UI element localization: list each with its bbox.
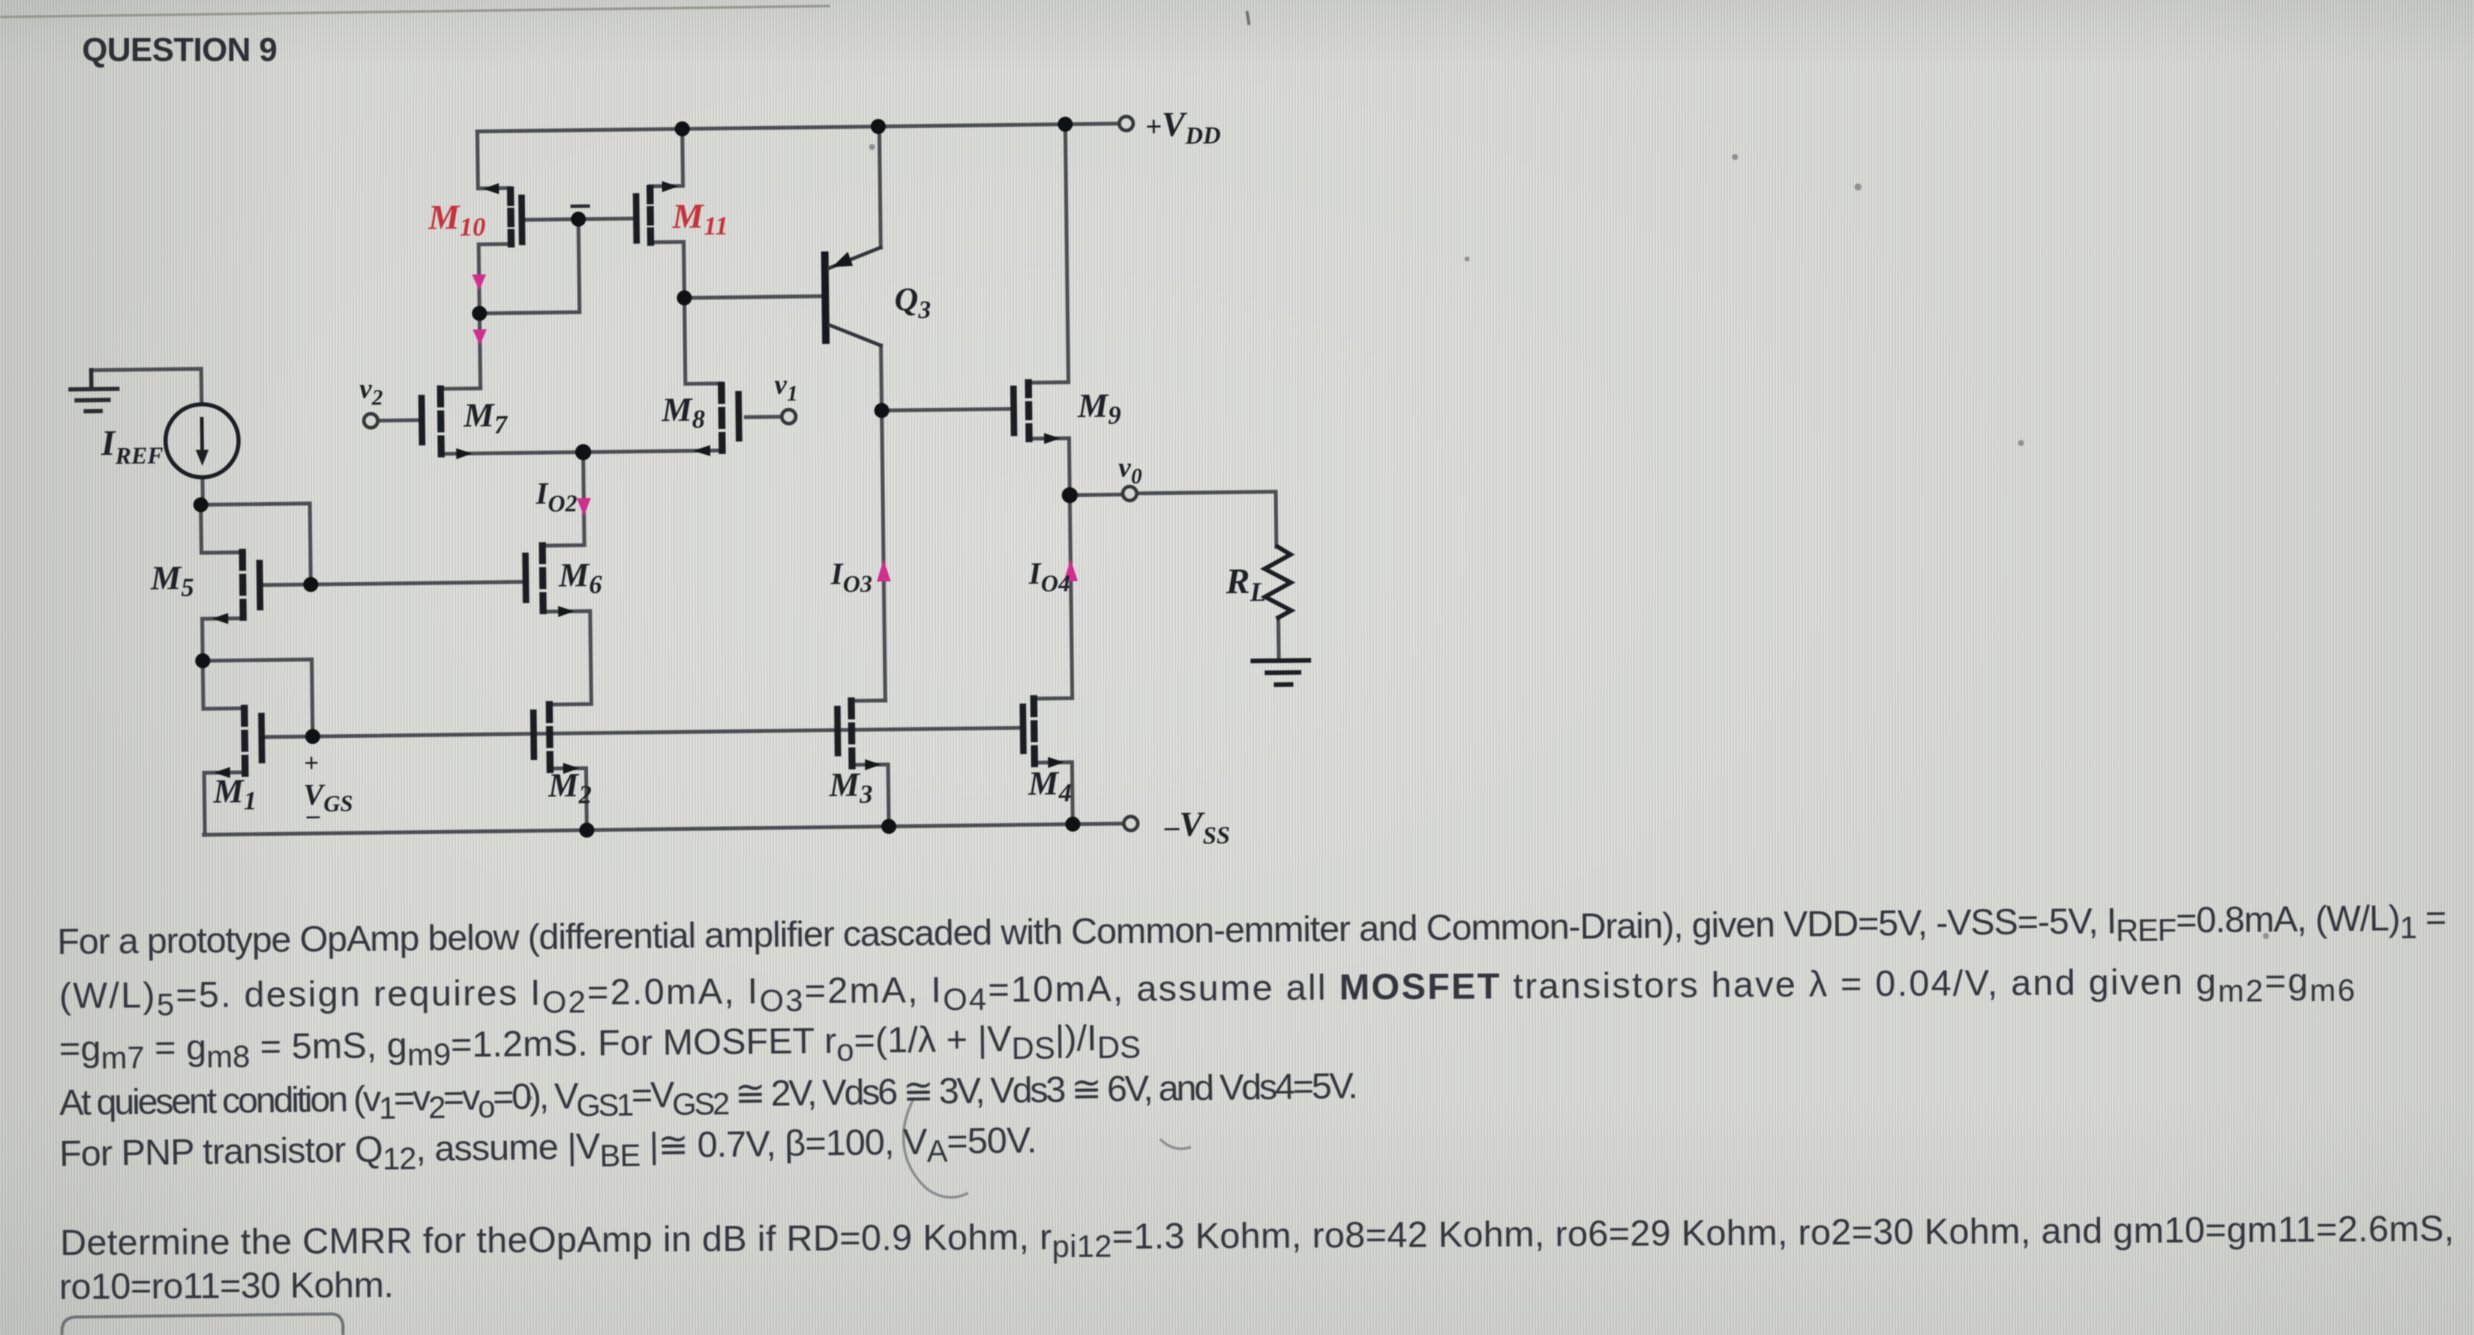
- svg-text:M6: M6: [557, 557, 602, 600]
- wire M3 drain stub: [851, 699, 885, 703]
- wire M11 source to rail: [649, 129, 683, 186]
- node M10 gate: [571, 212, 586, 227]
- transistor M8 (NMOS): [692, 385, 739, 456]
- wire M10 source to rail: [477, 131, 510, 188]
- wire M9 gate: [882, 409, 1011, 411]
- transistor M3 (NMOS): [837, 701, 881, 771]
- wire IREF to node A: [201, 478, 205, 505]
- node B: [195, 653, 210, 668]
- svg-text:QUESTION 9: QUESTION 9: [82, 31, 277, 68]
- svg-text:M7: M7: [463, 397, 509, 440]
- answer box top-left corner: [62, 1314, 343, 1335]
- terminal +VDD: [1119, 116, 1133, 130]
- transistor M7 (NMOS): [421, 389, 472, 460]
- node rail-Q3: [871, 119, 886, 134]
- node rail-M11: [675, 121, 690, 136]
- svg-text:M3: M3: [828, 767, 873, 810]
- svg-text:IO2: IO2: [534, 475, 577, 518]
- svg-text:IO4: IO4: [1028, 555, 1071, 598]
- transistor M4 (NMOS): [1023, 698, 1064, 768]
- transistor Q3 (PNP): [825, 247, 882, 346]
- transistor M1 (NMOS diode-connected): [213, 708, 262, 778]
- svg-text:M10: M10: [427, 197, 486, 242]
- pen tick: [1160, 1139, 1191, 1149]
- svg-text:M8: M8: [660, 392, 705, 435]
- wire M7 drain stub: [440, 386, 480, 390]
- wire M11 drain to Q3 base: [684, 296, 821, 298]
- wire -VSS bottom rail: [204, 824, 1124, 835]
- transistor M2 (NMOS): [533, 704, 579, 774]
- terminal v0: [1123, 486, 1137, 500]
- svg-text:M4: M4: [1027, 765, 1072, 808]
- node Q3 collector / M9 gate: [874, 403, 889, 418]
- node rail-M2: [579, 823, 594, 838]
- wire left ground feed: [91, 369, 201, 405]
- wire M9 source to v0: [1029, 438, 1070, 495]
- transistor M6 (NMOS): [525, 545, 574, 617]
- svg-text:–VSS: –VSS: [1164, 804, 1231, 850]
- arrow IO3: [877, 559, 891, 581]
- wire M9 drain riser: [1025, 124, 1068, 382]
- transistor M10 (PMOS): [483, 183, 522, 244]
- arrow IO2 on M10 drain upper: [472, 274, 486, 290]
- svg-text:v1: v1: [774, 370, 798, 406]
- wire M1-M2-M3-M4 gate bus: [265, 728, 1021, 737]
- ground (right, under RL): [1253, 660, 1309, 685]
- node rail-M3: [881, 819, 896, 834]
- wire M10 gate tie loop: [478, 219, 579, 313]
- dust specks: [528, 144, 2270, 1101]
- junction dots: [189, 117, 1082, 843]
- wire M10 drain to node P: [479, 244, 513, 386]
- wire v0 to RL: [1137, 492, 1277, 549]
- wire node A to M5 gate tie: [201, 503, 311, 585]
- screen tick top center: [1247, 11, 1249, 25]
- wire M3 source drop: [852, 764, 889, 826]
- wire IO2 drop to M6: [541, 452, 584, 546]
- transistor M9 (NMOS): [1013, 382, 1060, 444]
- top hairline: [0, 6, 830, 17]
- terminal circles: [360, 116, 1142, 839]
- wire Q3 collector column: [881, 345, 885, 700]
- wire Q3 emitter riser: [879, 126, 880, 247]
- magenta current arrows: [472, 267, 1078, 588]
- wire M6 source to M2 drain: [543, 611, 591, 705]
- svg-text:v2: v2: [359, 374, 383, 410]
- resistor RL: [1264, 547, 1291, 618]
- svg-text:+VDD: +VDD: [1145, 104, 1221, 150]
- node rail-M4: [1065, 817, 1080, 832]
- node A: [193, 497, 208, 512]
- terminal -VSS: [1124, 816, 1138, 830]
- gate node dash mark: [572, 204, 588, 208]
- svg-text:v0: v0: [1118, 452, 1142, 488]
- svg-text:Q3: Q3: [894, 282, 931, 324]
- pen arc near VA: [904, 1098, 968, 1197]
- wire M2 source drop: [550, 768, 587, 830]
- node M5 gate tie: [303, 577, 318, 592]
- wire v0 node to terminal: [1070, 493, 1123, 497]
- svg-text:RL: RL: [1225, 561, 1267, 608]
- wire M4 source drop: [1034, 762, 1073, 824]
- wire M5 drain: [201, 504, 243, 552]
- wire M1 drain: [203, 660, 245, 708]
- node v0: [1062, 487, 1078, 503]
- svg-text:M9: M9: [1076, 388, 1121, 431]
- terminal v2: [364, 414, 378, 428]
- current source IREF: [165, 404, 239, 478]
- arrow IO4: [1064, 559, 1078, 581]
- wire M10-M11 gate bus: [525, 219, 633, 220]
- node M11 drain: [677, 290, 692, 305]
- arrow IO2 on M10 drain lower: [473, 329, 487, 345]
- wire M1 source to -VSS rail: [204, 772, 246, 834]
- wire +VDD top rail: [477, 124, 1119, 132]
- wire M8 gate to v1: [746, 415, 782, 419]
- svg-text:–: –: [305, 800, 320, 829]
- transistor M5 (NMOS diode-connected): [211, 552, 260, 624]
- wire M5 source to node B: [202, 618, 244, 660]
- wire M5-M6 gate bus: [263, 582, 523, 585]
- transistor M11 (PMOS): [636, 181, 679, 243]
- wire RL to ground: [1276, 618, 1280, 661]
- arrow IO2 into M6: [577, 498, 591, 516]
- wire v2 to M7 gate: [378, 418, 418, 422]
- node rail-M9: [1058, 117, 1073, 132]
- svg-text:M5: M5: [150, 560, 195, 603]
- wire M7 M8 source bus: [441, 450, 722, 453]
- wire M11 drain down: [651, 242, 685, 298]
- svg-text:IREF: IREF: [100, 422, 164, 470]
- node P M10 drain: [472, 306, 487, 321]
- node IO2: [575, 444, 591, 460]
- wire node B to M1 gate tie: [203, 659, 313, 737]
- terminal v1: [782, 410, 796, 424]
- svg-text:+: +: [304, 748, 319, 777]
- wire M8 drain riser: [684, 297, 721, 383]
- svg-text:M1: M1: [212, 773, 257, 816]
- ground (left, at IREF): [70, 370, 117, 412]
- svg-text:M11: M11: [671, 196, 728, 241]
- wire M4 drain column: [1031, 495, 1072, 698]
- svg-text:IO3: IO3: [829, 556, 872, 599]
- node M1 gate tie: [305, 729, 320, 744]
